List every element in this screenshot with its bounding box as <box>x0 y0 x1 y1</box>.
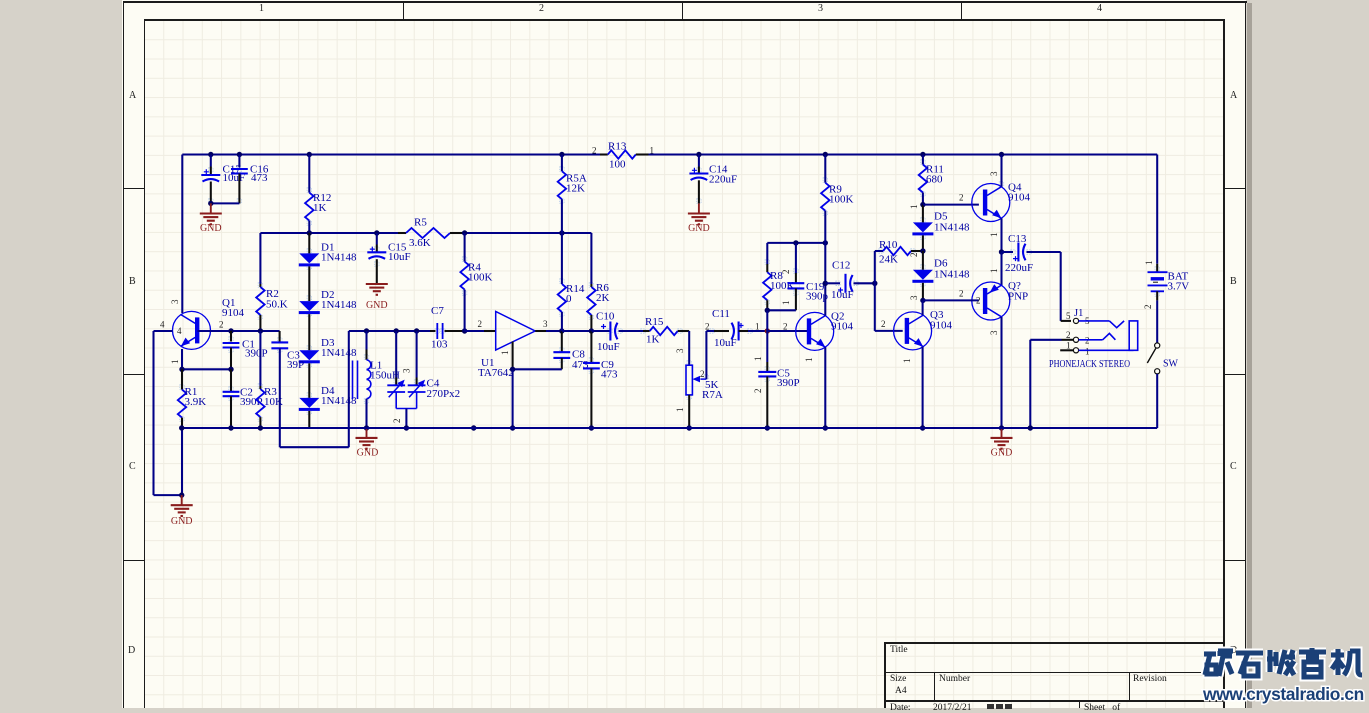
zone labels <box>259 3 264 14</box>
capacitor C19 <box>781 243 829 310</box>
node junction R4 tank <box>462 328 467 333</box>
wire C17-C16 ground link <box>211 202 240 204</box>
ground GND (C15) <box>366 284 388 311</box>
label PHONEJACK STEREO <box>1049 359 1130 370</box>
resistor R13 <box>592 140 654 170</box>
pin 1 label Q2 <box>804 358 814 363</box>
capacitor C1 <box>223 331 268 369</box>
pin 2 label BAT <box>1143 305 1153 310</box>
node junction R3 bus <box>258 425 263 430</box>
ground GND (Q1 bottom) <box>171 495 193 527</box>
pin 1 wire U1 <box>500 342 513 370</box>
svg-text:www.crystalradio.cn: www.crystalradio.cn <box>1202 684 1364 704</box>
outer border frame <box>123 1 1247 3</box>
pin4 loop wire left <box>154 331 182 495</box>
pin 3 label Q1 <box>170 299 180 304</box>
pin 2 label R7A wiper <box>700 369 705 379</box>
wire R15 to pot <box>688 331 690 365</box>
node junction R12 on rail <box>307 152 312 157</box>
resistor R2 <box>256 284 288 331</box>
wire D6 top lead <box>922 251 924 270</box>
pin 3 label C4 <box>402 368 412 373</box>
node junction jack bus <box>1028 425 1033 430</box>
node junction pin1 bus <box>510 425 515 430</box>
node junction D6 bottom <box>920 298 925 303</box>
node junction R5A on rail <box>559 152 564 157</box>
wire switch to bus <box>1156 374 1158 428</box>
battery BAT 3.7V <box>1148 271 1190 293</box>
wire bias bus <box>260 232 591 234</box>
capacitor C15 <box>367 233 410 283</box>
node junction C1 base <box>228 328 233 333</box>
wire R8C19 top <box>767 242 825 244</box>
wire D5-D6 mid <box>922 235 924 251</box>
wire Q3 collector <box>922 300 924 315</box>
capacitor C5 <box>753 331 800 428</box>
ground GND (C14) <box>688 203 710 234</box>
pin 3 label Q4 <box>989 171 999 176</box>
resistor R8 <box>763 243 794 310</box>
node junction R1 bus <box>179 425 184 430</box>
resistor R11 <box>919 155 944 205</box>
node junction R9 on rail <box>823 152 828 157</box>
wire C12 to Q3 base <box>875 283 903 331</box>
diode D4 <box>299 385 357 411</box>
wire pin3 node to C9 node <box>562 330 592 332</box>
diode D3 <box>299 337 357 363</box>
variable capacitor C4 section b <box>408 331 460 409</box>
transistor Q4 <box>972 182 1031 222</box>
sheet shadow <box>1247 3 1252 708</box>
node junction C4 bottom <box>404 425 409 430</box>
node junction Q3 bus <box>920 425 925 430</box>
ruler ticks top <box>403 1 404 19</box>
node junction PNP bus <box>999 425 1004 430</box>
wire U1 input <box>465 330 496 332</box>
resistor R10 <box>879 239 923 266</box>
wire rail to battery <box>1156 155 1158 273</box>
wire C8 bottom to U1 pin1 <box>513 368 562 370</box>
op-amp U1 TA7642 <box>478 312 535 380</box>
node junction pin1 <box>510 367 515 372</box>
pin 4 wire Q1 <box>154 320 183 337</box>
node junction R5A/R14 bus <box>559 230 564 235</box>
node junction R9 mid <box>823 240 828 245</box>
node junction C11 out (red) <box>765 328 770 333</box>
pin 1 label PNP <box>989 269 999 274</box>
wire Q4 base <box>923 193 979 205</box>
wire D5 top lead <box>922 205 924 223</box>
pin 2 jack <box>1062 330 1116 346</box>
inner border frame <box>144 19 1225 21</box>
resistor R4 <box>460 233 492 331</box>
inductor L1 <box>353 331 401 428</box>
wire Q4 collector to rail <box>1000 155 1002 187</box>
diode D5 <box>912 211 970 236</box>
node junction C9 top <box>589 328 594 333</box>
ground GND (L1) <box>356 428 379 459</box>
node junction U1 pin3 <box>559 328 564 333</box>
resistor R14 <box>558 233 585 331</box>
ground GND (output) <box>991 428 1013 459</box>
diode D2 <box>299 289 357 314</box>
resistor R5 <box>398 217 462 250</box>
node junction C16 on rail <box>237 152 242 157</box>
pin 1 label D5 <box>909 205 919 210</box>
capacitor C14 <box>689 155 737 204</box>
wire Q1 emitter line <box>182 349 231 369</box>
pin 1 jack <box>1060 341 1133 357</box>
wire R8 node down <box>766 310 768 331</box>
pin 1 label BAT <box>1144 261 1154 266</box>
capacitor C10 <box>591 311 643 353</box>
wire C12 to R10 <box>875 251 883 283</box>
node junction C4b top <box>414 328 419 333</box>
pin 2 label C4 <box>392 419 402 424</box>
node junction R12 bus <box>307 230 312 235</box>
wire VCC top rail left segment <box>182 153 600 155</box>
capacitor C16 <box>231 155 269 204</box>
wire VCC top rail right segment <box>649 153 1158 155</box>
wire battery to switch <box>1156 291 1158 343</box>
node junction C4a top <box>394 328 399 333</box>
node junction C17 gnd <box>208 201 213 206</box>
wire Q3 emitter to bus <box>922 347 924 428</box>
wire Q4 emitter down <box>1000 218 1002 252</box>
node junction C14 on rail <box>696 152 701 157</box>
capacitor C7 <box>430 305 465 351</box>
jack sleeve <box>1129 321 1138 350</box>
resistor R1 <box>178 369 206 428</box>
wire D6 bottom lead <box>922 283 924 301</box>
node junction R4 bus <box>462 230 467 235</box>
capacitor C2 <box>223 369 263 428</box>
pin 3 label Q3 <box>909 295 919 300</box>
pin hotspot markers <box>180 160 1160 421</box>
transistor Q3 <box>894 309 953 350</box>
pin 1 label Q1 <box>170 360 180 365</box>
variable capacitor C4 section a <box>387 331 405 409</box>
resistor R6 <box>587 282 609 331</box>
pin 1 label Q4 <box>989 233 999 238</box>
capacitor C9 <box>583 331 618 428</box>
watermark 矿石收音机 <box>1204 648 1362 677</box>
node junction stray <box>471 425 476 430</box>
wire R3 top <box>259 331 261 386</box>
ruler ticks left <box>123 188 144 189</box>
pin 3 label PNP <box>989 330 999 335</box>
transistor Q2 <box>796 311 854 351</box>
capacitor C12 <box>825 260 875 302</box>
wire D4 to bottom bus <box>308 411 310 428</box>
wire C13 to jack pin5 <box>1061 252 1071 321</box>
resistor R12 <box>305 155 331 234</box>
node junction D5D6 mid <box>920 248 925 253</box>
resistor R15 <box>643 316 689 346</box>
wire C3 loop bottom <box>280 331 349 447</box>
wire D3-D4 <box>308 363 310 398</box>
node junction C19 top <box>793 240 798 245</box>
wire Q1 base line <box>198 330 280 332</box>
wire D1-D2 <box>308 266 310 301</box>
wire PNP base <box>923 289 981 306</box>
wire bus corner to R6 <box>590 233 592 284</box>
wire diode chain top <box>308 233 310 253</box>
node junction C13 tap <box>999 249 1004 254</box>
resistor R3 <box>256 386 283 428</box>
node junction R8 bottom <box>765 308 770 313</box>
wire D2-D3 <box>308 314 310 350</box>
node junction R2R3 base <box>258 328 263 333</box>
capacitor C8 <box>553 331 589 371</box>
pin 3 label R7A <box>675 348 685 353</box>
node junction C12 in <box>823 281 828 286</box>
node junction C2 bus <box>228 425 233 430</box>
node junction gnd drop <box>179 492 184 497</box>
resistor R9 <box>821 155 853 243</box>
node junction L1 bottom <box>364 425 369 430</box>
pin 2 label D6 <box>909 253 919 258</box>
capacitor C3 <box>271 331 304 447</box>
node junction R11 on rail <box>920 152 925 157</box>
node junction C5 bus <box>765 425 770 430</box>
pin 1 label R7A <box>675 408 685 413</box>
wire to Q2 base <box>767 322 808 332</box>
diode D6 <box>912 258 970 283</box>
transistor Q? PNP <box>972 280 1028 320</box>
wire bus corner to R2 <box>259 233 261 284</box>
pin 3 wire U1 <box>535 319 562 331</box>
node junction C15 bus <box>374 230 379 235</box>
wire C4 bottoms join <box>396 409 416 429</box>
wire PNP collector to bus <box>1000 317 1002 428</box>
node junction emitter <box>179 367 184 372</box>
capacitor C17 <box>201 155 245 204</box>
wire emitter ground drop <box>181 428 183 495</box>
capacitor C13 <box>1002 233 1061 274</box>
node junction L1 top <box>364 328 369 333</box>
node junction C17 on rail <box>208 152 213 157</box>
node junction C12 out <box>872 281 877 286</box>
capacitor C11 <box>705 308 767 349</box>
pin 1 label Q3 <box>902 359 912 364</box>
wire U1 pin1 to bus <box>512 369 514 428</box>
switch SW <box>1147 343 1178 374</box>
resistor R5A <box>558 155 587 234</box>
pin 2 label Q1 <box>219 320 224 330</box>
wire Q2 emitter to bus <box>824 347 826 428</box>
connector J1 phonejack <box>1074 308 1083 319</box>
title block <box>884 642 1224 644</box>
wire pot wiper up <box>706 331 714 379</box>
wire Q1 collector to rail <box>181 155 183 314</box>
transistor Q1 <box>173 297 245 349</box>
wire PNP emitter <box>1000 252 1002 286</box>
wire tank line <box>349 330 430 332</box>
ruler ticks right <box>1225 188 1245 189</box>
wire Q2 collector <box>824 243 826 316</box>
wire R8C19 bottom <box>767 309 796 311</box>
wire jack pin2 to bus <box>1030 340 1061 428</box>
node junction C1C2 <box>228 367 233 372</box>
potentiometer R7A <box>686 365 723 428</box>
diode D1 <box>299 242 357 267</box>
pin 2 label U1 <box>478 319 483 329</box>
node junction R7A bus <box>687 425 692 430</box>
wire bottom bus <box>182 427 1157 429</box>
node junction Q2 bus <box>823 425 828 430</box>
pin 5 jack <box>1066 311 1124 328</box>
node junction C9 bus <box>589 425 594 430</box>
node junction D5 top <box>920 202 925 207</box>
ground GND (C17/C16) <box>200 203 222 234</box>
node junction Q4 collector on rail <box>999 152 1004 157</box>
